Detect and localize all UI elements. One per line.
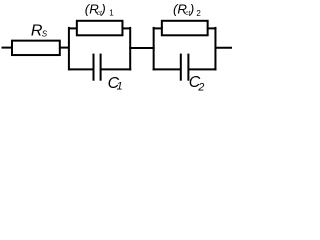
svg-text:1: 1 [109,9,114,18]
wire: right terminal lead [215,47,232,49]
wire: bottom-left of network 2 [153,68,181,70]
node B: right bar of first parallel network [129,27,131,71]
wire: bottom-left of network 1 [68,68,94,70]
wire: bottom-right of network 2 [188,68,216,70]
node C: left bar of second parallel network [153,27,155,71]
wire: top-right stub of network 1 [122,27,132,29]
capacitor C1 [93,54,95,81]
resistor RS [12,41,60,55]
wire: top-left stub of network 2 [153,27,163,29]
node A: left bar of first parallel network [68,27,70,71]
svg-text:2: 2 [196,9,201,18]
wire: top-right stub of network 2 [207,27,217,29]
node D: right bar of second parallel network [214,27,216,71]
wire: RS output to node A [60,47,70,49]
wire: left terminal lead [2,47,13,49]
svg-text:1: 1 [117,81,123,93]
wire: node B to node C [129,47,154,49]
capacitor C2 [180,54,182,81]
svg-text:2: 2 [197,82,204,94]
resistor (Rct)2 [162,21,208,36]
resistor (Rct)1 [77,21,123,36]
wire: top-left stub of network 1 [68,27,78,29]
wire: bottom-right of network 1 [101,68,132,70]
svg-text:S: S [42,30,48,39]
